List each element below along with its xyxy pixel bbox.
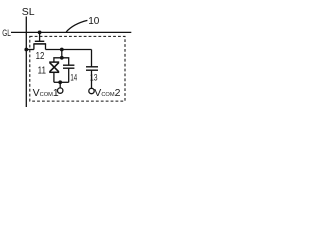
- svg-text:11: 11: [38, 66, 47, 77]
- terminal VCOM1 circle: [58, 88, 63, 93]
- node gate junction on GL: [38, 31, 42, 35]
- wire bottom bus: [54, 81, 69, 83]
- transistor Q 12 gate bar: [35, 40, 45, 42]
- wire branch to LC top: [54, 58, 62, 62]
- capacitor C 14 bottom plate: [63, 67, 74, 69]
- wire GL gate line (horizontal): [11, 31, 131, 33]
- wire drain to storage node: [46, 49, 92, 51]
- transistor Q 12 source leg: [33, 44, 35, 50]
- node VCOM1 junction dot: [58, 80, 62, 84]
- liquid crystal element 11 top plate: [49, 61, 59, 63]
- wire pixel node drop: [61, 50, 63, 58]
- wire C14 bottom lead: [68, 68, 70, 82]
- transistor Q 12 gate lead: [39, 32, 41, 41]
- wire leader line from 10 to pixel: [66, 20, 87, 32]
- svg-text:12: 12: [36, 50, 45, 62]
- svg-text:GL: GL: [2, 28, 11, 38]
- terminal VCOM2 circle: [89, 88, 94, 93]
- wire SL source line (vertical): [25, 17, 27, 108]
- wire LC bottom lead: [53, 72, 55, 82]
- node branch dot: [60, 56, 64, 60]
- capacitor C 13 bottom plate: [86, 69, 98, 71]
- transistor Q 12 drain leg: [45, 44, 47, 50]
- wire C13 bottom lead: [91, 70, 93, 88]
- svg-text:14: 14: [70, 72, 77, 82]
- wire VCOM1 lead: [59, 82, 61, 88]
- capacitor C 14 top plate: [63, 64, 74, 66]
- node pixel node dot: [60, 48, 64, 52]
- liquid crystal element 11 cross diagonal 2: [50, 63, 59, 72]
- capacitor C 13 top plate: [86, 66, 98, 68]
- transistor Q 12 channel bar: [33, 43, 46, 45]
- node tap on SL: [24, 48, 28, 52]
- svg-text:10: 10: [88, 16, 100, 27]
- wire storage node to C13: [91, 50, 93, 67]
- liquid crystal element 11 bottom plate: [49, 71, 59, 73]
- pixel 10 dashed box: [30, 36, 125, 101]
- svg-text:SL: SL: [22, 6, 35, 18]
- wire branch to C14 top: [62, 58, 69, 65]
- wire SL tap to source leg: [26, 49, 34, 51]
- liquid crystal element 11 cross diagonal 1: [50, 63, 59, 72]
